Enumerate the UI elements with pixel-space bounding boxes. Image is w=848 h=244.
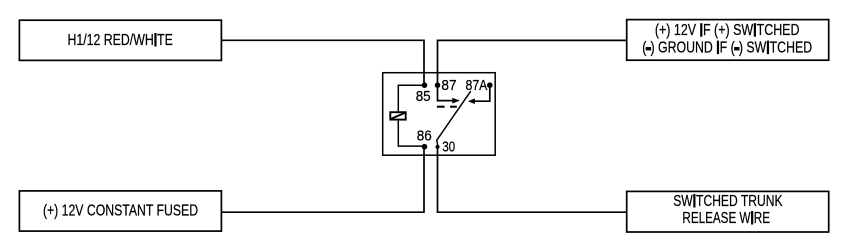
node H1/12 RED/WHITE box <box>19 20 221 60</box>
pin 86 junction dot <box>422 144 428 150</box>
wire 87A arrow (NC throw) <box>468 87 490 105</box>
relay K1 outline <box>383 73 496 156</box>
wire constant-fused box to relay pin 86 <box>221 147 424 213</box>
svg-text:87A: 87A <box>466 78 488 94</box>
svg-text:(+) 12V IF (+) SWITCHED: (+) 12V IF (+) SWITCHED <box>655 22 800 39</box>
switch armature from pin 30 <box>437 91 471 145</box>
wire 87 arrow (NO throw) <box>438 87 460 104</box>
svg-text:86: 86 <box>417 128 432 144</box>
svg-text:85: 85 <box>416 89 431 105</box>
node (+) 12V CONSTANT FUSED box <box>19 191 221 231</box>
svg-text:RELEASE WIRE: RELEASE WIRE <box>682 210 770 227</box>
dashed armature rest position <box>437 106 457 108</box>
wire relay coil loop pin85 to pin86 <box>398 85 424 146</box>
svg-text:30: 30 <box>442 139 455 155</box>
pin 87A junction dot <box>487 82 493 88</box>
svg-text:H1/12 RED/WHITE: H1/12 RED/WHITE <box>68 32 173 49</box>
pin 30 junction dot <box>435 145 439 149</box>
wire H1/12 box to relay pin 85 <box>221 40 424 85</box>
wire relay pin 30 to trunk release box <box>438 147 627 213</box>
node (+)12V IF (+) SWITCHED box <box>627 20 829 61</box>
svg-text:SWITCHED TRUNK: SWITCHED TRUNK <box>673 193 783 210</box>
node SWITCHED TRUNK RELEASE WIRE box <box>627 191 829 232</box>
svg-text:(-) GROUND IF (-) SWITCHED: (-) GROUND IF (-) SWITCHED <box>642 40 812 57</box>
pin 85 junction dot <box>422 82 428 88</box>
relay coil <box>390 112 405 119</box>
svg-text:(+) 12V CONSTANT FUSED: (+) 12V CONSTANT FUSED <box>43 203 198 220</box>
wire relay pin 87 to switched box <box>438 40 627 85</box>
svg-text:87: 87 <box>441 78 456 94</box>
pin 87 junction dot <box>435 82 441 88</box>
